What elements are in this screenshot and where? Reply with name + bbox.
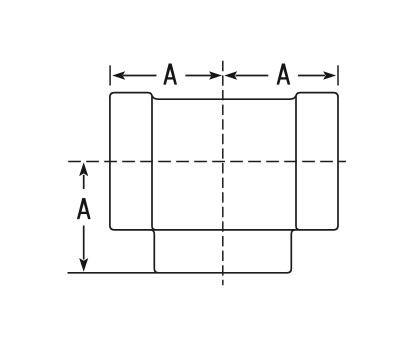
- top dimension right tick: [337, 65, 339, 85]
- vertical centerline: [222, 61, 224, 285]
- left dimension arrow (points down): [79, 258, 88, 272]
- top-right dimension shaft right segment: [298, 75, 325, 77]
- top-right dimension arrow (points right): [323, 71, 336, 80]
- bottom outlet band left edge: [151, 230, 158, 273]
- top-left dimension shaft left segment: [123, 75, 156, 77]
- label A top-right: [277, 64, 285, 85]
- top dimension left tick: [109, 65, 111, 85]
- top-left dimension arrow (points left): [112, 71, 125, 80]
- right socket inner edge: [296, 96, 300, 230]
- top-left dimension arrow (points right at centerline): [209, 71, 222, 80]
- bottom face line with left extension: [68, 272, 288, 274]
- left socket inner edge: [152, 96, 156, 230]
- top-right dimension shaft left segment: [236, 75, 269, 77]
- top-left dimension shaft right segment: [185, 75, 211, 77]
- label A top-left: [163, 64, 171, 85]
- left dimension arrow (points up): [79, 162, 88, 176]
- top-right dimension arrow (points left at centerline): [224, 71, 237, 80]
- bottom outlet band right edge: [287, 230, 294, 273]
- left dimension shaft lower segment: [83, 226, 85, 260]
- label A left: [77, 198, 85, 219]
- tee run outline (left socket band, body, right socket band): [110, 93, 338, 230]
- horizontal centerline: [68, 161, 346, 163]
- left dimension shaft upper segment: [83, 175, 85, 189]
